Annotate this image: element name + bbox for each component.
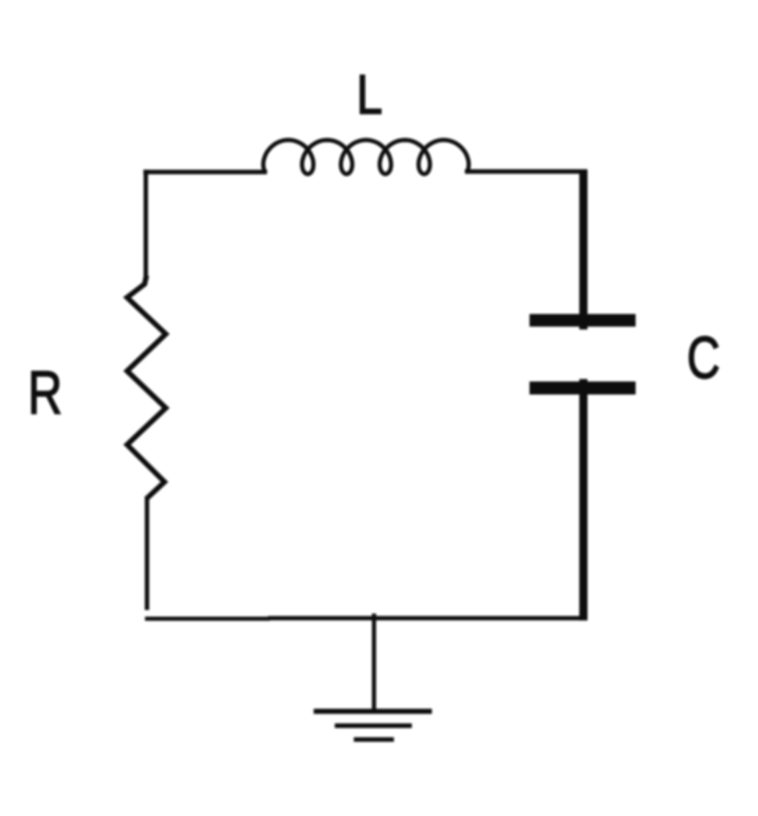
ground bar 2 xyxy=(335,723,412,728)
label C xyxy=(687,326,720,392)
label R xyxy=(28,358,63,427)
wire top-right horizontal xyxy=(465,169,587,174)
ground bar 1 xyxy=(314,709,432,714)
resistor R zigzag xyxy=(127,276,166,498)
wire right vertical lower xyxy=(579,379,587,621)
svg-text:C: C xyxy=(687,326,720,392)
inductor L1 coil xyxy=(263,140,468,174)
wire bottom horizontal right segment xyxy=(268,616,588,620)
ground bar 3 xyxy=(354,737,394,742)
wire left vertical lower xyxy=(145,496,149,610)
wire left vertical upper xyxy=(144,170,148,277)
ground stem xyxy=(372,614,376,712)
wire bottom horizontal xyxy=(145,617,270,621)
wire top-left horizontal xyxy=(143,170,267,175)
wire right vertical upper xyxy=(579,170,587,330)
capacitor C bottom plate xyxy=(530,382,636,395)
svg-text:R: R xyxy=(28,358,63,427)
svg-text:L: L xyxy=(356,63,382,126)
capacitor C top plate xyxy=(530,314,636,327)
label L xyxy=(356,63,382,126)
